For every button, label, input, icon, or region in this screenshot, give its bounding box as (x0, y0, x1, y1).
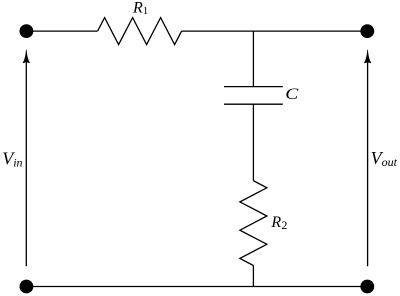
wire top: junction node to output terminal (253, 30, 367, 32)
Vout arrow shaft (367, 61, 369, 266)
svg-text:R2: R2 (270, 214, 287, 232)
resistor R1 (98, 18, 182, 45)
svg-text:R1: R1 (132, 0, 148, 17)
node: input top terminal (20, 24, 34, 38)
capacitor C (224, 87, 283, 105)
svg-text:Vout: Vout (371, 148, 398, 169)
Vin arrowhead (23, 50, 30, 63)
wire bottom: bottom junction to output terminal (253, 286, 367, 288)
node: output bottom terminal (360, 280, 374, 294)
svg-text:C: C (285, 85, 299, 103)
wire bottom: input terminal to bottom junction (26, 286, 253, 288)
svg-text:Vin: Vin (2, 148, 22, 169)
node: output top terminal (360, 24, 374, 38)
resistor R2 (240, 181, 267, 266)
Vin arrow shaft (25, 61, 27, 266)
node: input bottom terminal (20, 280, 34, 294)
Vout arrowhead (364, 50, 371, 63)
wire top: R1 to junction node (182, 30, 254, 32)
wire: capacitor C to R2 (252, 104, 254, 181)
wire top: input terminal to R1 (26, 30, 97, 32)
wire: top junction down to capacitor C (252, 31, 254, 87)
wire: R2 to bottom junction node (252, 266, 254, 287)
